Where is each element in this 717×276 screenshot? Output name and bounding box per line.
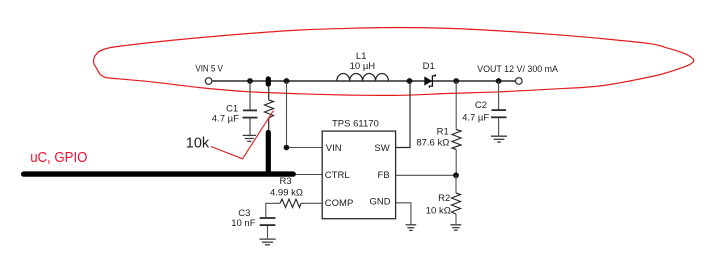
svg-text:R2: R2 bbox=[438, 193, 450, 204]
svg-text:GND: GND bbox=[369, 197, 390, 208]
svg-text:COMP: COMP bbox=[325, 198, 354, 209]
node: SW/L1/D1 junction dot bbox=[407, 78, 413, 84]
wire: main top rail VIN to VOUT bbox=[212, 80, 515, 82]
ground (IC GND pin) bbox=[406, 225, 417, 231]
capacitor C1 bbox=[243, 81, 258, 135]
terminal: VOUT output circle bbox=[516, 78, 523, 85]
annotation: thick GPIO wire horizontal bbox=[24, 171, 294, 176]
node: VIN-pin branch junction dot bbox=[284, 78, 290, 84]
svg-text:uC, GPIO: uC, GPIO bbox=[30, 150, 87, 166]
svg-text:10 kΩ: 10 kΩ bbox=[426, 205, 451, 216]
node: C1 junction dot bbox=[247, 78, 253, 84]
resistor R3 bbox=[266, 199, 322, 217]
annotation: thick vertical bar lower segment bbox=[266, 132, 271, 172]
IC U1 TPS61170 box bbox=[322, 131, 395, 219]
svg-text:87.6 kΩ: 87.6 kΩ bbox=[416, 138, 449, 149]
annotation: thick vertical bar upper segment (crossing rail) bbox=[266, 79, 271, 84]
svg-text:FB: FB bbox=[378, 170, 390, 181]
svg-text:4.7 µF: 4.7 µF bbox=[462, 112, 489, 123]
node: dot at VIN pin corner bbox=[284, 145, 290, 151]
svg-text:R1: R1 bbox=[437, 127, 449, 138]
node: R1 branch junction dot bbox=[453, 78, 459, 84]
wire: CTRL pin lead bbox=[290, 174, 322, 176]
svg-text:SW: SW bbox=[374, 143, 389, 154]
svg-text:10 µH: 10 µH bbox=[350, 61, 376, 72]
ground (below C3) bbox=[260, 239, 276, 245]
diode D1 (schottky) bbox=[424, 76, 432, 85]
ground (below R2) bbox=[450, 225, 461, 230]
svg-text:VIN: VIN bbox=[326, 143, 342, 154]
capacitor C3 bbox=[260, 218, 276, 238]
svg-text:R3: R3 bbox=[280, 176, 292, 187]
ground (below C1) bbox=[243, 135, 256, 141]
resistor 10k pull-up (annotated) bbox=[265, 87, 274, 131]
svg-text:10k: 10k bbox=[186, 135, 210, 151]
inductor L1 bbox=[337, 73, 389, 81]
wire: GND pin lead bbox=[396, 203, 411, 224]
wire: FB pin to divider bbox=[396, 174, 456, 176]
svg-text:CTRL: CTRL bbox=[325, 170, 350, 181]
svg-text:4.7 µF: 4.7 µF bbox=[212, 114, 239, 125]
svg-text:VIN 5 V: VIN 5 V bbox=[195, 63, 223, 74]
red annotation ellipse bbox=[94, 28, 694, 96]
resistor R1 bbox=[452, 81, 461, 175]
node: FB junction dot bbox=[453, 172, 459, 178]
resistor R2 bbox=[452, 175, 461, 224]
annotation: red arrow line to 10k resistor bbox=[211, 111, 274, 159]
node: C2 branch junction dot bbox=[496, 78, 502, 84]
capacitor C2 bbox=[491, 81, 507, 136]
svg-text:10 nF: 10 nF bbox=[231, 218, 255, 229]
ground (below C2) bbox=[491, 136, 507, 142]
wire: SW pin up to rail bbox=[396, 81, 410, 148]
terminal: VIN input circle bbox=[205, 78, 212, 85]
svg-text:C2: C2 bbox=[475, 100, 487, 111]
svg-text:D1: D1 bbox=[423, 61, 435, 72]
svg-text:TPS 61170: TPS 61170 bbox=[332, 119, 379, 130]
svg-text:VOUT 12 V/ 300 mA: VOUT 12 V/ 300 mA bbox=[477, 64, 558, 75]
wire: branch from rail down to VIN pin bbox=[287, 81, 323, 148]
svg-text:4.99 kΩ: 4.99 kΩ bbox=[270, 187, 303, 198]
